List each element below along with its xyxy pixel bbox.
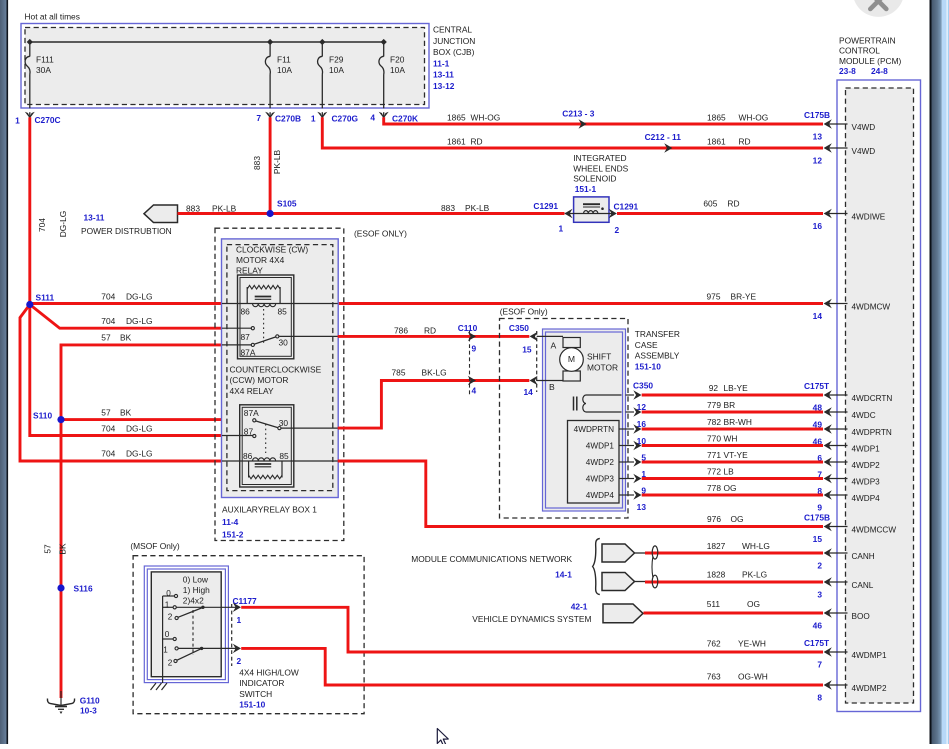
svg-text:WH-LG: WH-LG <box>742 541 770 551</box>
wire: 772 LB C350 pin 9 <box>626 478 635 480</box>
svg-text:4X4 RELAY: 4X4 RELAY <box>230 386 274 396</box>
svg-text:4: 4 <box>472 386 477 396</box>
svg-text:10A: 10A <box>277 65 292 75</box>
svg-text:OG: OG <box>731 514 744 524</box>
4x4 switch body box <box>151 572 221 677</box>
svg-text:RD: RD <box>424 326 436 336</box>
svg-text:DG-LG: DG-LG <box>126 424 153 434</box>
wire: 1828 PK-LG to PCM CANL <box>645 581 823 584</box>
svg-text:C1291: C1291 <box>614 202 639 212</box>
svg-text:13-11: 13-11 <box>84 213 105 223</box>
svg-text:762: 762 <box>707 639 721 649</box>
svg-text:151-10: 151-10 <box>635 361 661 371</box>
svg-text:704: 704 <box>101 424 115 434</box>
svg-text:DG-LG: DG-LG <box>126 316 153 326</box>
svg-text:13: 13 <box>813 131 823 141</box>
svg-text:BR-WH: BR-WH <box>724 417 752 427</box>
svg-text:2: 2 <box>615 225 620 235</box>
CCW relay pin 30 <box>281 427 338 429</box>
svg-text:86: 86 <box>243 451 253 461</box>
splice S105 dot <box>267 210 274 217</box>
PCM pin V4WD (13) <box>828 123 848 125</box>
svg-text:15: 15 <box>522 344 532 354</box>
wire: 785 BK-LG from CCW relay 30 to C110 <box>338 381 530 429</box>
svg-text:MOTOR: MOTOR <box>587 362 618 372</box>
svg-text:1: 1 <box>163 646 168 655</box>
svg-text:87: 87 <box>241 332 251 342</box>
svg-text:BK: BK <box>120 408 132 418</box>
switch 2 position 2 and arm <box>174 659 177 662</box>
svg-text:883: 883 <box>186 204 200 214</box>
close button (top-right, partially cut) <box>853 0 905 17</box>
svg-text:46: 46 <box>813 620 823 630</box>
svg-text:1: 1 <box>311 114 316 124</box>
bus junction dot <box>381 39 387 45</box>
svg-text:4WDP4: 4WDP4 <box>586 491 615 500</box>
svg-text:PK-LB: PK-LB <box>212 204 237 214</box>
svg-text:(CCW) MOTOR: (CCW) MOTOR <box>230 375 289 385</box>
wire: 778 OG C350 pin 13 <box>626 494 635 496</box>
wire: 762 YE-WH from C1177 pin 1 to PCM 4WDMP1 <box>241 607 823 652</box>
svg-text:4X4 HIGH/LOW: 4X4 HIGH/LOW <box>239 668 299 678</box>
svg-text:57: 57 <box>43 544 53 554</box>
svg-text:4WDIWE: 4WDIWE <box>852 212 886 221</box>
CW motor 4x4 relay box <box>238 275 294 359</box>
CCW relay mech link <box>265 424 267 453</box>
svg-text:C213 - 3: C213 - 3 <box>562 109 594 119</box>
switch mech link <box>192 610 194 655</box>
svg-text:8: 8 <box>817 692 822 702</box>
svg-text:S116: S116 <box>74 584 93 594</box>
svg-text:0: 0 <box>165 630 170 639</box>
svg-text:11-1: 11-1 <box>433 58 450 68</box>
wire: C270C to S111 vertical 704 DG-LG <box>28 117 31 304</box>
svg-text:87A: 87A <box>244 408 259 418</box>
fuse F11 10A <box>269 42 271 57</box>
svg-text:4WDP3: 4WDP3 <box>586 475 615 484</box>
fuse F20 10A <box>383 42 385 57</box>
svg-text:86: 86 <box>241 307 251 317</box>
VDS connector arrow <box>603 604 643 623</box>
svg-text:F29: F29 <box>329 55 344 65</box>
svg-text:JUNCTION: JUNCTION <box>433 36 475 46</box>
svg-text:511: 511 <box>707 599 721 609</box>
svg-text:4WDP3: 4WDP3 <box>852 477 881 486</box>
svg-text:1: 1 <box>165 601 170 610</box>
svg-text:CANL: CANL <box>852 581 874 590</box>
svg-text:4WDMP2: 4WDMP2 <box>852 684 887 693</box>
svg-text:770: 770 <box>707 433 721 443</box>
svg-text:BR: BR <box>724 400 736 410</box>
svg-text:2: 2 <box>817 560 822 570</box>
svg-text:RD: RD <box>471 137 483 147</box>
PCM pin CANL (3) <box>828 581 848 583</box>
svg-text:1827: 1827 <box>707 541 726 551</box>
svg-text:V4WD: V4WD <box>852 147 876 156</box>
svg-text:4WDP4: 4WDP4 <box>852 494 881 503</box>
svg-text:4: 4 <box>370 113 375 123</box>
svg-text:INDICATOR: INDICATOR <box>239 678 284 688</box>
svg-text:G110: G110 <box>80 696 100 706</box>
PCM pin 4WDMCCW (15) <box>828 526 848 528</box>
svg-text:0: 0 <box>166 589 171 598</box>
wire: 57 BK to CW relay 87A <box>61 345 222 420</box>
svg-text:C212 - 11: C212 - 11 <box>645 132 682 142</box>
svg-text:7: 7 <box>256 113 261 123</box>
transfer case ESOF dashed box <box>500 319 629 519</box>
svg-text:OG: OG <box>724 483 737 493</box>
svg-text:Hot at all times: Hot at all times <box>25 12 80 22</box>
svg-text:85: 85 <box>279 451 289 461</box>
wire: 763 OG-WH from C1177 pin 2 to PCM 4WDMP2 <box>241 648 823 685</box>
switch 2 output line <box>175 647 178 650</box>
svg-text:14: 14 <box>524 387 534 397</box>
PCM pin 4WDMCW (14) <box>828 303 848 305</box>
svg-text:4WDPRTN: 4WDPRTN <box>574 425 614 434</box>
svg-text:SWITCH: SWITCH <box>239 689 272 699</box>
svg-text:11-4: 11-4 <box>222 517 239 527</box>
svg-text:TRANSFER: TRANSFER <box>635 329 680 339</box>
svg-text:VT-YE: VT-YE <box>724 450 749 460</box>
svg-text:1861: 1861 <box>707 137 726 147</box>
PCM pin V4WD (12) <box>828 147 848 149</box>
svg-text:OG: OG <box>747 599 760 609</box>
wire: S111 to relay coil 704 DG-LG (975 BR-YE to PCM 4WDMCW) <box>30 302 222 305</box>
svg-text:CONTROL: CONTROL <box>839 46 880 56</box>
svg-text:MODULE COMMUNICATIONS NETWORK: MODULE COMMUNICATIONS NETWORK <box>411 554 572 564</box>
svg-text:INTEGRATED: INTEGRATED <box>573 153 626 163</box>
wire: 771 VT-YE C350 pin 1 <box>626 461 635 463</box>
window frame right edge strip <box>930 0 932 744</box>
svg-text:87A: 87A <box>241 348 256 358</box>
svg-text:57: 57 <box>101 408 111 418</box>
PCM pin 4WDMP1 (7) <box>828 651 848 653</box>
svg-text:C1291: C1291 <box>533 201 558 211</box>
CW relay pin 87 <box>222 327 252 329</box>
svg-text:14-1: 14-1 <box>555 570 572 580</box>
powertrain control module PCM outline <box>837 80 921 712</box>
wire: 770 WH C350 pin 5 <box>626 445 635 447</box>
integrated wheel ends solenoid <box>574 197 609 222</box>
svg-text:4WDP2: 4WDP2 <box>852 461 881 470</box>
CCW motor 4x4 relay box <box>240 405 294 487</box>
CW relay pin 87A and arm <box>222 344 252 346</box>
svg-text:2)4x2: 2)4x2 <box>183 595 204 605</box>
svg-text:LB-YE: LB-YE <box>724 383 749 393</box>
CCW relay pin 87 <box>222 435 253 437</box>
wire: 975 BR-YE right segment <box>338 302 823 305</box>
svg-text:M: M <box>568 354 575 364</box>
wire: 779 BR C350 pin 16 <box>626 411 635 413</box>
svg-text:LB: LB <box>724 466 735 476</box>
svg-text:1: 1 <box>237 615 242 625</box>
svg-text:POWERTRAIN: POWERTRAIN <box>839 36 896 46</box>
svg-text:779: 779 <box>707 400 721 410</box>
svg-text:14: 14 <box>813 311 823 321</box>
connector C270K pin 4 <box>379 112 389 119</box>
switch 1 output line <box>163 606 173 608</box>
MCN connector arrow 1 <box>602 544 635 562</box>
svg-text:4WDP2: 4WDP2 <box>586 458 615 467</box>
svg-text:1865: 1865 <box>447 113 466 123</box>
svg-text:SHIFT: SHIFT <box>587 352 611 362</box>
svg-text:(MSOF Only): (MSOF Only) <box>130 541 180 551</box>
bus junction dot <box>267 39 273 45</box>
svg-text:0) Low: 0) Low <box>183 574 209 584</box>
svg-text:C1177: C1177 <box>233 596 258 606</box>
PCM pin 4WDCRTN (48) <box>828 394 848 396</box>
svg-text:42-1: 42-1 <box>571 602 588 612</box>
svg-text:704: 704 <box>101 292 115 302</box>
svg-text:C270B: C270B <box>275 114 301 124</box>
svg-text:A: A <box>551 341 557 351</box>
svg-text:2: 2 <box>237 656 242 666</box>
PCM pin 4WDPRTN (46) <box>828 428 848 430</box>
svg-text:772: 772 <box>707 466 721 476</box>
wire: 511 OG to PCM BOO <box>644 612 824 615</box>
svg-text:13-11: 13-11 <box>433 70 454 80</box>
svg-text:MODULE (PCM): MODULE (PCM) <box>839 56 902 66</box>
auxiliary relay box inner dashed <box>227 245 333 491</box>
wire: 1827 WH-LG to PCM CANH <box>645 552 823 555</box>
wire: 786 RD from CW relay 30 to C110 <box>338 335 530 338</box>
svg-text:975: 975 <box>707 292 721 302</box>
PCM pin 4WDIWE (16) <box>828 213 848 215</box>
svg-text:1828: 1828 <box>707 570 726 580</box>
svg-text:4WDMCCW: 4WDMCCW <box>852 525 897 534</box>
fuse F29 10A <box>321 42 323 57</box>
MCN connector arrow 2 <box>602 573 635 591</box>
bus junction dot <box>319 39 325 45</box>
wire: 782 BR-WH C350 pin 10 <box>626 428 635 430</box>
svg-text:ASSEMBLY: ASSEMBLY <box>635 351 680 361</box>
svg-text:4WDMCW: 4WDMCW <box>852 302 891 311</box>
wire: 605 RD from C1291 to PCM 4WDIWE <box>617 212 823 215</box>
connector C270G pin 1 <box>317 112 327 119</box>
svg-text:CENTRAL: CENTRAL <box>433 25 472 35</box>
svg-text:DG-LG: DG-LG <box>126 449 153 459</box>
wire: 976 OG from CCW coil to PCM 4WDMCCW <box>338 461 823 527</box>
svg-text:13: 13 <box>637 502 647 512</box>
svg-text:3: 3 <box>817 589 822 599</box>
4x4 switch blue box <box>144 566 228 683</box>
svg-text:RD: RD <box>727 199 739 209</box>
svg-text:PK-LG: PK-LG <box>742 570 767 580</box>
svg-text:C270K: C270K <box>392 114 418 124</box>
svg-text:883: 883 <box>252 156 262 170</box>
splice S116 dot <box>57 584 64 591</box>
svg-text:23-8: 23-8 <box>839 66 856 76</box>
svg-text:85: 85 <box>278 307 288 317</box>
wire: CJB power bus <box>30 41 384 43</box>
splice S110 dot <box>57 416 64 423</box>
CCW relay coil <box>222 460 338 462</box>
svg-text:RELAY: RELAY <box>236 265 263 275</box>
svg-text:(ESOF ONLY): (ESOF ONLY) <box>354 229 407 239</box>
MCN curly brace <box>593 539 600 595</box>
svg-text:V4WD: V4WD <box>852 123 876 132</box>
svg-text:DG-LG: DG-LG <box>58 211 68 238</box>
svg-text:704: 704 <box>37 218 47 232</box>
PCM pin CANH (2) <box>828 552 848 554</box>
svg-text:F20: F20 <box>390 55 405 65</box>
transfer case position coil <box>586 394 622 396</box>
wire: C270B to S105 vertical 883 PK-LB <box>269 117 272 213</box>
svg-text:C175B: C175B <box>804 513 830 523</box>
window frame left edge strip <box>0 0 7 744</box>
switch 2 position 0 <box>163 638 173 640</box>
svg-text:15: 15 <box>813 534 823 544</box>
svg-text:YE-WH: YE-WH <box>738 639 766 649</box>
svg-text:B: B <box>549 382 555 392</box>
CW relay mech link <box>263 309 265 344</box>
svg-text:BK: BK <box>120 333 132 343</box>
central junction box CJB outline <box>21 24 429 109</box>
svg-text:VEHICLE DYNAMICS SYSTEM: VEHICLE DYNAMICS SYSTEM <box>472 614 591 624</box>
PCM pin 4WDP1 (6) <box>828 445 848 447</box>
svg-text:10A: 10A <box>390 65 405 75</box>
wire: S111 branch down-left <box>20 305 222 462</box>
svg-text:C350: C350 <box>633 381 653 391</box>
svg-text:763: 763 <box>707 672 721 682</box>
svg-text:4WDPRTN: 4WDPRTN <box>852 428 892 437</box>
connector C270C pin 1 <box>25 112 35 119</box>
PCM pin 4WDP3 (8) <box>828 478 848 480</box>
connector C1291 pin 1 (left) <box>564 209 572 218</box>
shift motor <box>537 335 563 337</box>
MSOF dashed box <box>133 556 364 714</box>
svg-text:S105: S105 <box>277 199 297 209</box>
fuse F111 30A <box>29 42 31 57</box>
svg-text:C175T: C175T <box>804 638 830 648</box>
svg-text:PK-LB: PK-LB <box>465 203 490 213</box>
svg-text:CASE: CASE <box>635 340 658 350</box>
svg-text:1865: 1865 <box>707 113 726 123</box>
svg-text:30: 30 <box>279 337 289 347</box>
svg-text:1: 1 <box>15 116 20 126</box>
svg-text:786: 786 <box>394 326 408 336</box>
PCM pin 4WDC (49) <box>828 411 848 413</box>
wire: 92 LB-YE C350 pin 12 <box>626 394 635 396</box>
svg-text:WHEEL ENDS: WHEEL ENDS <box>573 163 628 173</box>
svg-text:C270G: C270G <box>332 114 359 124</box>
switch 1 position 2 and arm <box>175 616 178 619</box>
switch 1 position 0 <box>163 595 174 597</box>
PCM pin 4WDMP2 (8) <box>828 684 848 686</box>
auxiliary relay box blue <box>222 239 339 498</box>
svg-text:CLOCKWISE (CW): CLOCKWISE (CW) <box>236 244 308 254</box>
splice S111 dot <box>26 301 33 308</box>
svg-text:7: 7 <box>817 659 822 669</box>
svg-text:BR-YE: BR-YE <box>731 292 757 302</box>
svg-text:F111: F111 <box>36 55 54 65</box>
svg-text:87: 87 <box>244 427 254 437</box>
svg-text:OG-WH: OG-WH <box>738 672 768 682</box>
svg-text:C175T: C175T <box>804 381 830 391</box>
svg-text:30: 30 <box>279 418 289 428</box>
CW relay pin 30 <box>279 335 338 337</box>
svg-text:1: 1 <box>559 224 564 234</box>
svg-text:C175B: C175B <box>804 110 830 120</box>
svg-text:10A: 10A <box>329 65 344 75</box>
svg-text:DG-LG: DG-LG <box>126 292 153 302</box>
svg-text:C350: C350 <box>509 323 529 333</box>
svg-text:30A: 30A <box>36 65 51 75</box>
svg-text:COUNTERCLOCKWISE: COUNTERCLOCKWISE <box>230 365 322 375</box>
mouse cursor <box>437 729 448 746</box>
svg-text:92: 92 <box>709 383 719 393</box>
svg-text:BOO: BOO <box>852 612 870 621</box>
svg-text:4WDC: 4WDC <box>852 411 876 420</box>
svg-text:4WDP1: 4WDP1 <box>852 444 881 453</box>
svg-text:S110: S110 <box>33 411 52 421</box>
svg-text:POWER DISTRUBTION: POWER DISTRUBTION <box>81 226 172 236</box>
svg-text:883: 883 <box>441 203 455 213</box>
svg-text:976: 976 <box>707 514 721 524</box>
svg-text:9: 9 <box>472 344 477 354</box>
wire: 1861 RD from C270G to PCM V4WD pin 12 <box>322 117 823 148</box>
switch chassis ground hatch <box>151 683 168 690</box>
svg-text:1) High: 1) High <box>183 585 210 595</box>
svg-text:2: 2 <box>168 659 173 668</box>
svg-text:782: 782 <box>707 417 721 427</box>
svg-text:151-1: 151-1 <box>575 184 597 194</box>
connector C1291 pin 2 (right) <box>609 209 617 218</box>
wire: 883 PK-LB from arrow to IWE solenoid <box>178 212 565 215</box>
svg-text:WH-OG: WH-OG <box>471 113 501 123</box>
wire: S111 straight down to CCW 87 row <box>30 305 222 436</box>
svg-text:57: 57 <box>101 333 111 343</box>
transfer case sensor box <box>568 421 620 504</box>
svg-text:RD: RD <box>739 137 751 147</box>
svg-text:10-3: 10-3 <box>80 706 97 716</box>
svg-text:771: 771 <box>707 450 721 460</box>
svg-text:785: 785 <box>392 368 406 378</box>
PCM pin 4WDP4 (9) <box>828 494 848 496</box>
svg-text:12: 12 <box>813 155 823 165</box>
power distribution arrow <box>144 205 178 223</box>
svg-text:S111: S111 <box>36 293 55 303</box>
svg-text:AUXILARYRELAY BOX 1: AUXILARYRELAY BOX 1 <box>222 505 317 515</box>
switch common line <box>162 596 164 677</box>
PCM pin 4WDP2 (7) <box>828 461 848 463</box>
wire: S110 to CCW relay 87A 57 BK <box>61 418 222 421</box>
svg-text:BK-LG: BK-LG <box>422 368 447 378</box>
svg-text:4WDP1: 4WDP1 <box>586 442 615 451</box>
bus junction dot <box>27 39 33 45</box>
svg-text:151-10: 151-10 <box>239 700 265 710</box>
svg-text:WH: WH <box>724 433 738 443</box>
svg-text:1861: 1861 <box>447 137 466 147</box>
svg-text:9: 9 <box>817 502 822 512</box>
svg-text:704: 704 <box>101 449 115 459</box>
connector C270B pin 7 <box>265 112 275 119</box>
svg-text:PK-LB: PK-LB <box>272 149 282 174</box>
transfer case blue box <box>543 329 626 511</box>
wire: S111 branch to CW relay 87 704 DG-LG <box>30 305 222 329</box>
svg-text:2: 2 <box>168 612 173 621</box>
svg-text:MOTOR 4X4: MOTOR 4X4 <box>236 255 285 265</box>
svg-text:(ESOF Only): (ESOF Only) <box>500 307 548 317</box>
wire: S110 down to G110 57 BK <box>60 420 63 698</box>
svg-text:BOX (CJB): BOX (CJB) <box>433 47 475 57</box>
svg-text:4WDCRTN: 4WDCRTN <box>852 394 893 403</box>
svg-text:4WDMP1: 4WDMP1 <box>852 651 887 660</box>
svg-text:CANH: CANH <box>852 552 875 561</box>
CW relay coil <box>222 303 338 305</box>
svg-text:F11: F11 <box>277 55 291 65</box>
ground G110 <box>60 691 62 705</box>
